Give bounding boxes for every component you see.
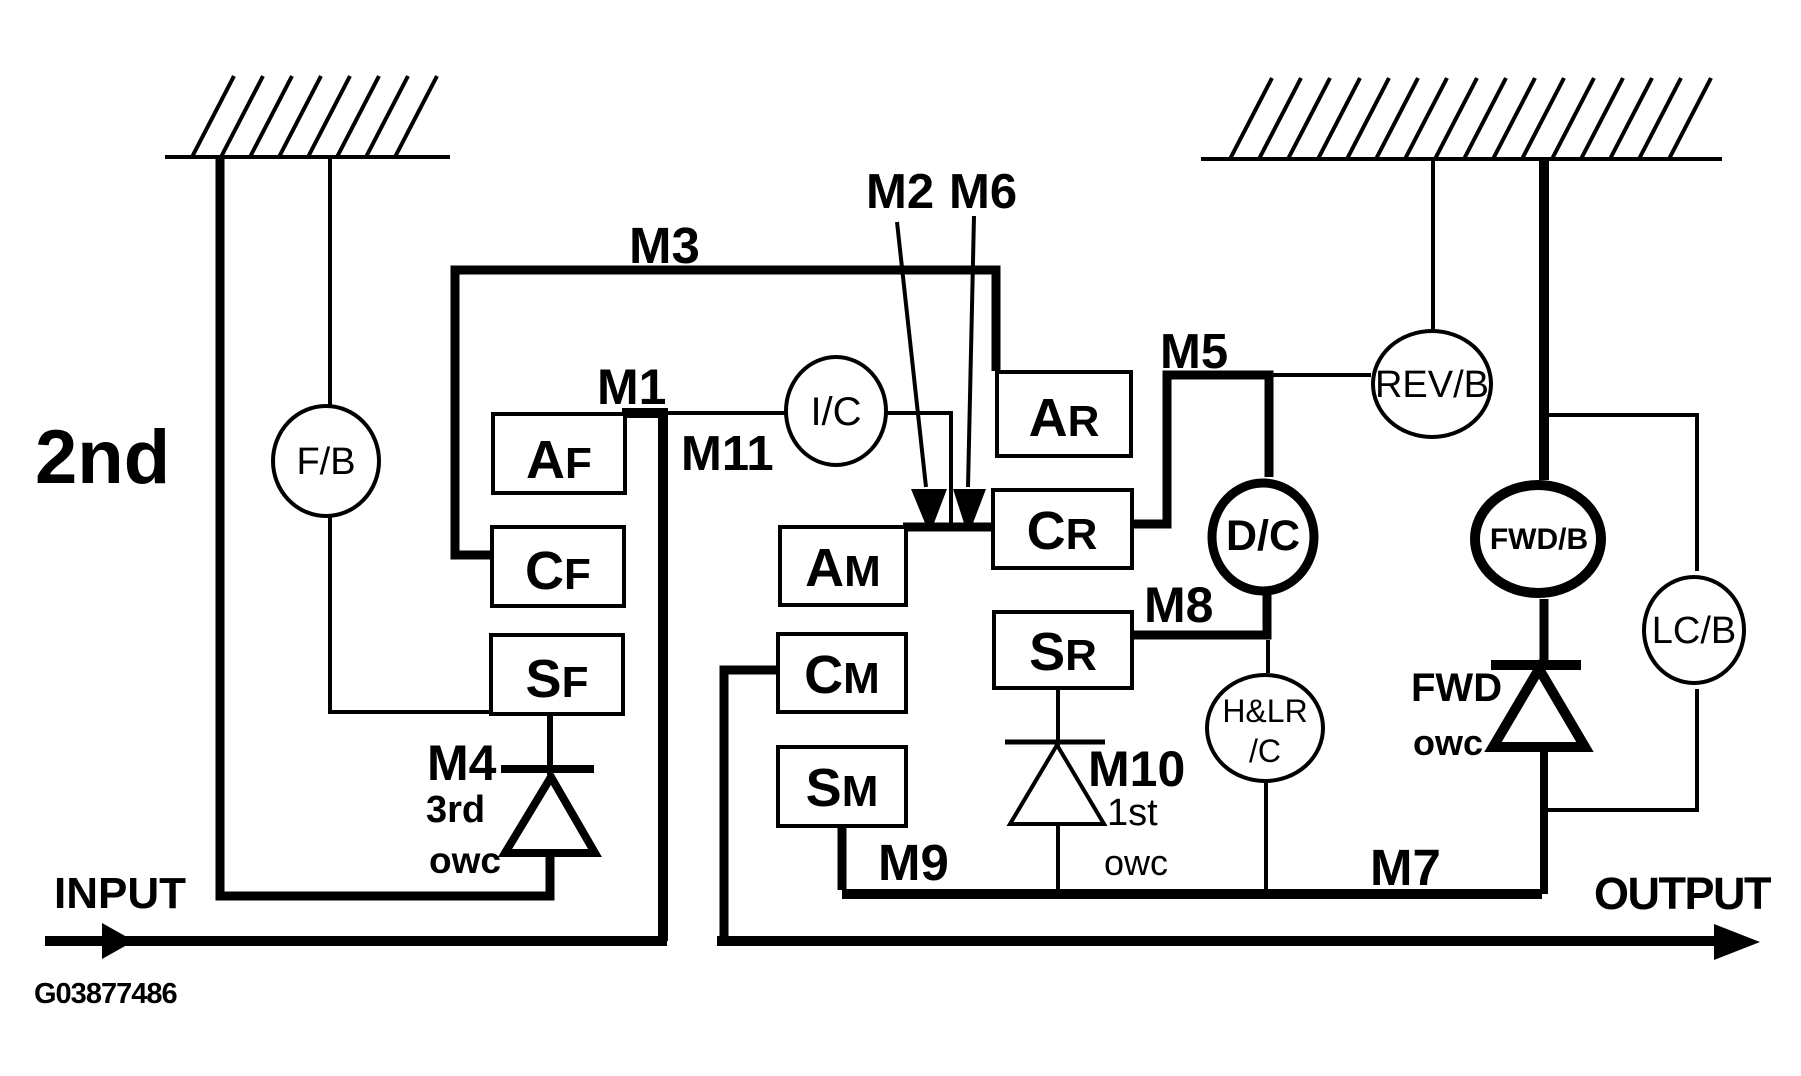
svg-text:F/B: F/B xyxy=(296,441,355,483)
svg-text:M3: M3 xyxy=(629,217,700,274)
svg-text:OUTPUT: OUTPUT xyxy=(1594,868,1771,919)
svg-text:M6: M6 xyxy=(949,165,1017,219)
box AM xyxy=(780,527,906,605)
svg-text:M11: M11 xyxy=(681,427,774,481)
box SR xyxy=(994,612,1132,688)
ground left xyxy=(165,76,450,157)
svg-text:FWD/B: FWD/B xyxy=(1490,523,1588,556)
wire output line xyxy=(717,936,1740,946)
wire to I/C and down to junction xyxy=(667,413,951,523)
one-way clutch M4: bar xyxy=(501,765,594,773)
wire ground to FWD/B xyxy=(1539,159,1549,480)
svg-text:REV/B: REV/B xyxy=(1375,364,1489,406)
band FWD/B xyxy=(1475,485,1601,593)
svg-text:M2: M2 xyxy=(866,165,934,219)
box SF xyxy=(491,635,623,714)
svg-text:CF: CF xyxy=(525,541,591,601)
wire SM to M9 xyxy=(838,826,847,890)
svg-text:SR: SR xyxy=(1029,622,1097,682)
wire junction bar xyxy=(903,523,995,532)
ground right xyxy=(1201,78,1722,159)
svg-text:owc: owc xyxy=(1413,722,1483,763)
one-way clutch M10: triangle xyxy=(1010,745,1104,824)
svg-text:M1: M1 xyxy=(597,359,666,415)
band REV/B xyxy=(1373,331,1491,437)
wire M9/M7 xyxy=(842,889,1542,899)
arrowhead M2 xyxy=(911,489,947,523)
band LC/B xyxy=(1644,577,1744,683)
svg-text:2nd: 2nd xyxy=(35,415,170,500)
wire M8 xyxy=(1132,592,1267,635)
one-way clutch M10: bar xyxy=(1005,740,1105,745)
box AR xyxy=(997,372,1131,456)
one-way clutch FWD: triangle xyxy=(1493,669,1585,747)
wire ground to REV/B xyxy=(1431,159,1435,329)
svg-text:M5: M5 xyxy=(1160,325,1228,379)
clutch H&LR/C xyxy=(1207,675,1323,781)
svg-text:3rd: 3rd xyxy=(426,789,485,831)
wire H&LR/C to M7 xyxy=(1264,783,1268,894)
box SM xyxy=(778,747,906,826)
clutch I/C xyxy=(786,357,886,465)
box CF xyxy=(492,527,624,606)
svg-text:G03877486: G03877486 xyxy=(34,978,177,1010)
svg-text:/C: /C xyxy=(1249,733,1281,769)
wire FWD/B to owc xyxy=(1540,599,1549,663)
svg-text:D/C: D/C xyxy=(1226,512,1300,560)
wire LC/B bottom loop xyxy=(1546,689,1697,810)
svg-text:LC/B: LC/B xyxy=(1652,610,1736,652)
svg-text:1st: 1st xyxy=(1107,792,1158,834)
svg-text:M9: M9 xyxy=(878,834,949,891)
wire input line xyxy=(45,936,667,946)
band F/B xyxy=(273,406,379,516)
svg-text:M10: M10 xyxy=(1088,741,1185,797)
svg-text:M7: M7 xyxy=(1370,839,1441,896)
wire M5 xyxy=(1133,375,1269,524)
svg-text:H&LR: H&LR xyxy=(1222,693,1307,729)
svg-text:owc: owc xyxy=(429,840,501,881)
wire FWD owc down to M7 xyxy=(1540,750,1548,894)
one-way clutch M4: triangle xyxy=(505,777,595,853)
one-way clutch M4: stem xyxy=(547,714,553,775)
svg-text:INPUT: INPUT xyxy=(54,869,186,918)
svg-text:M8: M8 xyxy=(1144,577,1213,633)
one-way clutch FWD: bar xyxy=(1491,660,1581,670)
wire D/C to H&LR/C xyxy=(1266,640,1270,673)
arrowhead M6 xyxy=(953,489,986,523)
arrowhead input xyxy=(102,923,134,959)
clutch D/C xyxy=(1212,483,1314,591)
svg-text:AR: AR xyxy=(1029,388,1100,448)
wire M1/M11 (down to input line) xyxy=(622,413,663,941)
wire CM to output xyxy=(724,670,778,941)
wire left main (ground to owc M4) xyxy=(220,157,550,896)
svg-text:I/C: I/C xyxy=(810,390,861,434)
box AF xyxy=(493,414,625,493)
box CM xyxy=(778,634,906,712)
svg-text:CR: CR xyxy=(1027,501,1098,561)
wire F/B (ground to F/B to SF) xyxy=(330,157,491,712)
svg-text:FWD: FWD xyxy=(1411,666,1502,710)
svg-text:CM: CM xyxy=(804,645,880,705)
arrowhead output xyxy=(1714,924,1760,960)
leader line M6 xyxy=(968,216,974,487)
wire M5 to REV/B xyxy=(1269,373,1371,377)
svg-text:AF: AF xyxy=(526,430,592,490)
svg-text:AM: AM xyxy=(805,538,881,598)
svg-text:SF: SF xyxy=(526,649,589,709)
box CR xyxy=(993,490,1132,568)
svg-text:M4: M4 xyxy=(427,735,497,791)
svg-text:owc: owc xyxy=(1104,842,1168,883)
leader line M2 xyxy=(897,222,926,487)
svg-text:SM: SM xyxy=(806,758,879,818)
wire branch to LC/B xyxy=(1548,415,1697,571)
one-way clutch M10: stem xyxy=(1056,688,1060,894)
wire M3 xyxy=(455,270,996,555)
